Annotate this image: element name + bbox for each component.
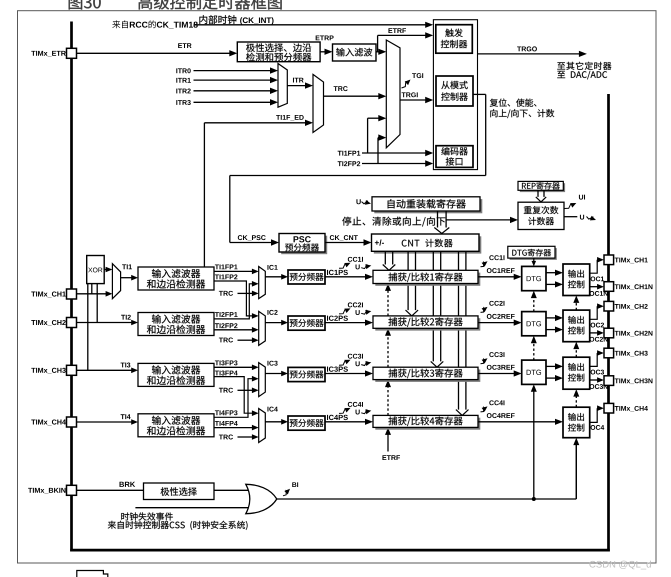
mux IC1 select (259, 267, 266, 299)
box: 预分频器 prescaler channel 3 (288, 367, 325, 381)
wire TI2FP2 riser to trigger mux (377, 138, 379, 164)
wire TI3 (121, 363, 131, 368)
figure title (cut off at top): 图30 高级控制定时器框图 (69, 0, 101, 9)
wire OC1REF (487, 268, 515, 273)
wire TI2 (121, 315, 131, 320)
wire TI3FP3 (215, 360, 238, 365)
wire TI2FP2 (215, 323, 238, 328)
box: 捕获/比较4寄存器 (375, 418, 480, 430)
wire TI2FP1 (up to IC1 mux) (215, 312, 238, 317)
wire BRK from BKIN pin (77, 489, 144, 491)
pin TIMx_CH2 output (604, 301, 614, 311)
wire OC1N to pin (590, 286, 598, 288)
wire ITR2 (176, 89, 190, 94)
box: 从模式控制器 slave mode controller (436, 76, 473, 106)
box: DTG寄存器 (510, 248, 557, 260)
watermark (589, 561, 650, 570)
thick frame: right vertical (607, 94, 610, 551)
wire TI1FP2 (down to IC2 mux) (215, 274, 238, 279)
wire ETRP (316, 35, 334, 40)
box: 输出控制 output control 1 (563, 264, 590, 296)
wire IC1PS into capture/compare 1 register (325, 276, 366, 278)
wire BI break output (277, 498, 577, 500)
CC1I capture event flag (339, 264, 348, 269)
wire OC2N to pin (590, 332, 598, 334)
wire TI1FP1 riser to trigger mux (367, 118, 369, 153)
hollow arrows: counter to capture/compare registers (384, 251, 386, 265)
wire TRGO (478, 53, 580, 55)
wire IC1 to prescaler (265, 276, 282, 278)
legend box (cut off at bottom) (77, 571, 108, 577)
mux IC3 select (259, 363, 266, 397)
box: 输出控制 output control 2 (563, 310, 590, 342)
controller container box (433, 20, 477, 170)
wire ITR0 (176, 68, 190, 73)
wire slave mode controller to prescaler clock (CK_PSC) (473, 93, 486, 95)
U event into capture/compare 1 (356, 264, 360, 269)
CC4I compare event flag (481, 407, 485, 412)
box: 极性选择、边沿检测和预分频器 (237, 42, 320, 62)
wire CK_CNT (330, 235, 358, 241)
wire TRGI (402, 92, 418, 97)
box: 输出控制 output control 4 (563, 407, 590, 438)
pin TIMx_CH4 (67, 417, 77, 427)
wire OC2 to pin (590, 306, 598, 319)
wire OC3REF (487, 365, 515, 370)
CC2I capture event flag (339, 309, 348, 314)
wire polarity select to OR gate (214, 489, 250, 491)
box: CNT 计数器 counter (374, 236, 482, 253)
wire IC3 to prescaler (265, 373, 282, 375)
wire clock failure event into OR gate (135, 507, 251, 509)
box: 捕获/比较2寄存器 (375, 318, 480, 330)
text: 复位、使能、向上/向下、计数 (490, 99, 537, 107)
mux TRC select (313, 74, 324, 132)
box: REP寄存器 (520, 183, 565, 192)
mux TI1 select (112, 264, 120, 299)
CC2I compare event flag (481, 308, 485, 313)
box: 捕获/比较3寄存器 (375, 370, 480, 382)
BI event marker (283, 491, 288, 496)
pin TIMx_CH1 (67, 289, 77, 299)
wire ETRF into capture/compare 4 (387, 433, 389, 452)
UI event from repetition counter (565, 204, 574, 209)
thick frame: left vertical (70, 22, 73, 552)
wire TI1FP1 to encoder interface (338, 151, 361, 156)
wire TI1FP1 (215, 264, 238, 269)
wire IC3PS into capture/compare 3 register (325, 373, 366, 375)
box: 编码器接口 encoder interface (436, 146, 473, 168)
header text: 内部时钟 (CK_INT) (199, 15, 236, 24)
pin TIMx_CH3 (67, 365, 77, 375)
wire XOR output to TI1 mux (104, 269, 106, 271)
wire OC2REF (487, 314, 515, 319)
U event into capture/compare 3 (356, 361, 360, 366)
wires DTG1 to output control (546, 272, 556, 274)
box: 输入滤波器和边沿检测器 channel 1 (138, 267, 214, 290)
wire ITR1 (176, 78, 191, 83)
pin TIMx_CH2 (67, 318, 77, 328)
box: 预分频器 prescaler channel 2 (288, 316, 325, 330)
box: 自动重装载寄存器 auto-reload register (374, 199, 482, 213)
header text: 来自RCC的CK_TIM18 (112, 20, 197, 28)
wire TRC into IC3 mux (219, 388, 233, 393)
U event into auto-reload register (356, 199, 360, 204)
wire TI4FP4 (215, 421, 238, 426)
XOR input stubs (87, 284, 89, 371)
box: 输出控制 output control 3 (563, 357, 590, 389)
wire IC2 to prescaler (265, 322, 282, 324)
wire OC4 to pin (590, 408, 598, 422)
wire ITR3 (176, 100, 190, 105)
U event into capture/compare 2 (356, 310, 360, 315)
wire TI4 (121, 414, 131, 419)
box: XOR (87, 256, 105, 284)
box: 捕获/比较1寄存器 (375, 273, 480, 286)
wire TI1F_ED (276, 115, 304, 121)
wire TI4FP3 (up to IC3 mux) (215, 410, 238, 415)
wire ETR (77, 52, 231, 54)
pin TIMx_CH3 output (604, 348, 614, 358)
wire TRC into IC2 mux (219, 338, 233, 343)
TGI event marker (402, 82, 409, 88)
wire filter output to trigger mux (376, 51, 379, 53)
wire ETRF branch to trigger controller (377, 35, 379, 51)
wire OC4REF (487, 413, 515, 418)
dashed break line up through output control blocks (575, 301, 577, 310)
solid break line from BI to output control 4 (575, 443, 577, 499)
wires DTG2 to output control (546, 317, 556, 319)
wire IC4 to prescaler (265, 421, 282, 423)
dashed update arrows between capture/compare rows (387, 289, 389, 316)
box: PSC 预分频器 prescaler (281, 236, 327, 255)
CC1I compare event flag (481, 262, 485, 267)
box: 极性选择 polarity select (144, 483, 215, 500)
box: 输入滤波 input filter (333, 44, 377, 61)
wires DTG3 to output control (546, 365, 556, 367)
pin TIMx_CH4 output (604, 403, 614, 413)
hollow arrow: REP register to repetition counter (537, 190, 539, 198)
text: 时钟失效事件 (121, 512, 173, 520)
pin TIMx_CH1N output (604, 282, 614, 292)
pin TIMx_ETR (67, 48, 77, 58)
text: 停止、清除或向上/向下 (342, 217, 445, 227)
pin TIMx_CH3N output (604, 376, 614, 386)
wire IC4PS into capture/compare 4 register (325, 421, 366, 423)
pin TIMx_BKIN (67, 485, 77, 495)
box: DTG1 dead-time generator (522, 266, 546, 290)
wire TRC into IC4 mux (219, 435, 233, 440)
wire IC2PS into capture/compare 2 register (325, 322, 366, 324)
wire TI3FP4 (down to IC4 mux) (215, 371, 238, 376)
text: 来自时钟控制器CSS (时钟安全系统) (108, 521, 248, 530)
dashed break line up through DTG blocks (533, 296, 535, 311)
box: 重复次数计数器 repetition counter (518, 202, 564, 229)
junction dot on break line (532, 497, 536, 501)
OR gate (246, 484, 277, 513)
box: 输入滤波器和边沿检测器 channel 2 (138, 313, 214, 336)
box: 输入滤波器和边沿检测器 channel 3 (138, 363, 214, 386)
box: 预分频器 prescaler channel 1 (288, 270, 325, 284)
wire auto-reload register to repetition counter (446, 219, 511, 221)
wire TI1 to input filter (121, 277, 133, 279)
box: DTG3 dead-time generator (522, 360, 546, 384)
mux ITR select (278, 64, 287, 108)
wire TRC to trigger mux (334, 86, 348, 91)
pin TIMx_CH1 output (604, 255, 614, 265)
CC3I capture event flag (339, 361, 348, 366)
wire OC1 to pin (590, 260, 598, 273)
wire TI2FP2 to encoder interface (338, 161, 361, 166)
box: DTG2 dead-time generator (522, 312, 546, 336)
box: 预分频器 prescaler channel 4 (288, 416, 325, 430)
wire ITR (293, 78, 304, 83)
box: 输入滤波器和边沿检测器 channel 4 (138, 414, 214, 437)
thick frame: bottom horizontal (70, 549, 610, 552)
mux IC2 select (259, 311, 266, 345)
solid break line from BI to DTG3 (533, 390, 535, 499)
wire CH1 pin to TI1 mux (77, 293, 107, 295)
wire OC3N to pin (590, 379, 598, 381)
U event output (564, 216, 577, 218)
trigger mux (TRGI select) (386, 40, 400, 148)
wire OC3 to pin (590, 353, 598, 366)
U event into capture/compare 4 (356, 410, 360, 415)
CC4I capture event flag (339, 409, 348, 414)
text: 至其它定时器 至 DAC/ADC (557, 62, 611, 70)
pin TIMx_CH2N output (604, 328, 614, 338)
hollow arrow: auto-reload to counter (437, 211, 439, 229)
mux IC4 select (259, 409, 266, 443)
wire DTG register to DTG1 (533, 258, 535, 261)
wire TRC into IC1 mux (219, 291, 233, 296)
CC3I compare event flag (481, 359, 485, 364)
box: 触发控制器 trigger controller (436, 25, 473, 54)
wire CK_INT to trigger block (194, 24, 427, 26)
